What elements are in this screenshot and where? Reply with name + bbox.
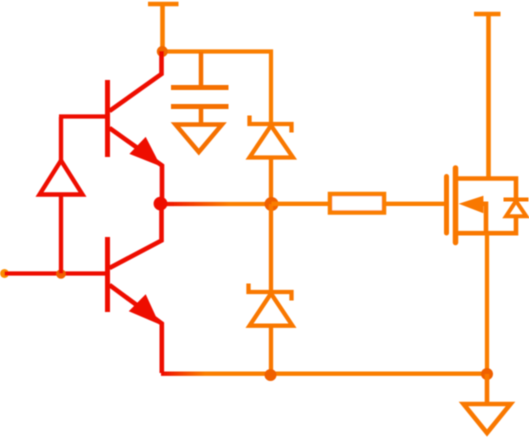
transistor Q2 (bottom, NPN): [108, 204, 162, 373]
wire top rail to zener column: [162, 52, 271, 125]
bottom rail wire: [161, 372, 487, 376]
node junction bottom right: [481, 368, 493, 380]
node output (red dot): [154, 197, 168, 211]
body diode of Q3: [504, 200, 529, 217]
body arrow of Q3: [459, 196, 484, 213]
power rail V+ left: [148, 4, 179, 51]
zener diode D3 bottom: [249, 204, 293, 375]
input terminal: [0, 269, 9, 278]
body terminal: [480, 204, 486, 234]
emitter arrow of Q2: [129, 294, 160, 324]
diode D1: [40, 161, 83, 195]
node junction input: [56, 269, 66, 279]
ground symbol under C1: [176, 125, 223, 153]
wire input to Q2 base: [5, 271, 108, 275]
MOSFET Q3: [447, 168, 517, 243]
capacitor C1: [171, 52, 229, 124]
node junction top-left: [157, 46, 168, 57]
resistor R1: [272, 194, 447, 213]
node junction output (orange): [265, 197, 279, 211]
wire source to bottom rail: [485, 234, 489, 375]
gate bar: [444, 177, 449, 234]
node junction bottom zener: [265, 369, 277, 381]
emitter arrow of Q1: [129, 137, 160, 167]
ground symbol bottom right: [464, 374, 511, 433]
transistor Q1 (top, NPN): [108, 51, 163, 204]
drain link: [456, 179, 517, 200]
wire output node to zener column: [161, 202, 272, 206]
power rail V+ right: [474, 14, 501, 179]
source link: [456, 216, 517, 233]
wire Q1 base: [59, 114, 108, 118]
wire left vertical to D1: [59, 117, 63, 160]
zener diode D2 top: [250, 116, 294, 204]
wire D1 to input node: [59, 195, 63, 274]
channel bar: [453, 168, 459, 243]
